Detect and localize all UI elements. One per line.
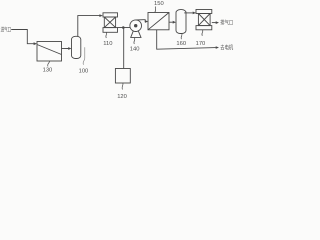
leader 120 [122,83,123,90]
svg-text:100: 100 [79,69,89,75]
svg-text:120: 120 [117,94,127,100]
svg-text:去电机: 去电机 [220,44,233,52]
wire capsule100 top to column 110 [78,16,100,37]
wire capsule160 top to column 170 [184,12,193,14]
svg-text:130: 130 [43,68,53,74]
box 130 (separator with diagonal) [37,42,62,62]
leader 110 [105,32,108,38]
wire column170 to outlet [212,22,216,24]
svg-text:150: 150 [154,1,164,7]
svg-text:170: 170 [196,41,206,47]
leader 160 [181,34,182,40]
wire box150 to capsule 160 [169,21,173,23]
leader 130 [48,61,50,67]
column 170 X-body [198,14,210,26]
column 170 top flange [196,10,212,14]
wire pump140 to box 150 [136,20,146,22]
wire box130 to capsule 100 [62,48,69,50]
svg-text:160: 160 [176,41,186,47]
leader 100 [83,47,85,65]
svg-text:140: 140 [130,46,140,52]
pump 140 base [131,31,141,37]
column 110 bottom flange [103,28,118,33]
box 120 [115,69,130,84]
wire box150 bottom to generator [157,30,216,49]
svg-text:110: 110 [103,41,112,47]
column 170 bottom flange [196,26,212,30]
svg-text:进气口: 进气口 [1,26,12,34]
capsule 160 (vertical tank) [176,10,186,34]
wire inlet to box 130 [11,30,34,44]
column 110 X-body [104,17,115,28]
junction node [122,26,125,29]
wire column110 to pump 140 [118,27,131,29]
svg-text:排气口: 排气口 [220,19,233,27]
leader 140 [133,38,136,44]
capsule 100 (vertical tank) [72,36,81,58]
leader 150 [155,7,156,13]
column 110 top flange [103,13,118,17]
leader 170 [202,30,203,36]
pump 140 circle [130,20,142,32]
box 150 (separator with diagonal) [148,13,169,30]
wire junction down to box 120 [123,28,125,69]
